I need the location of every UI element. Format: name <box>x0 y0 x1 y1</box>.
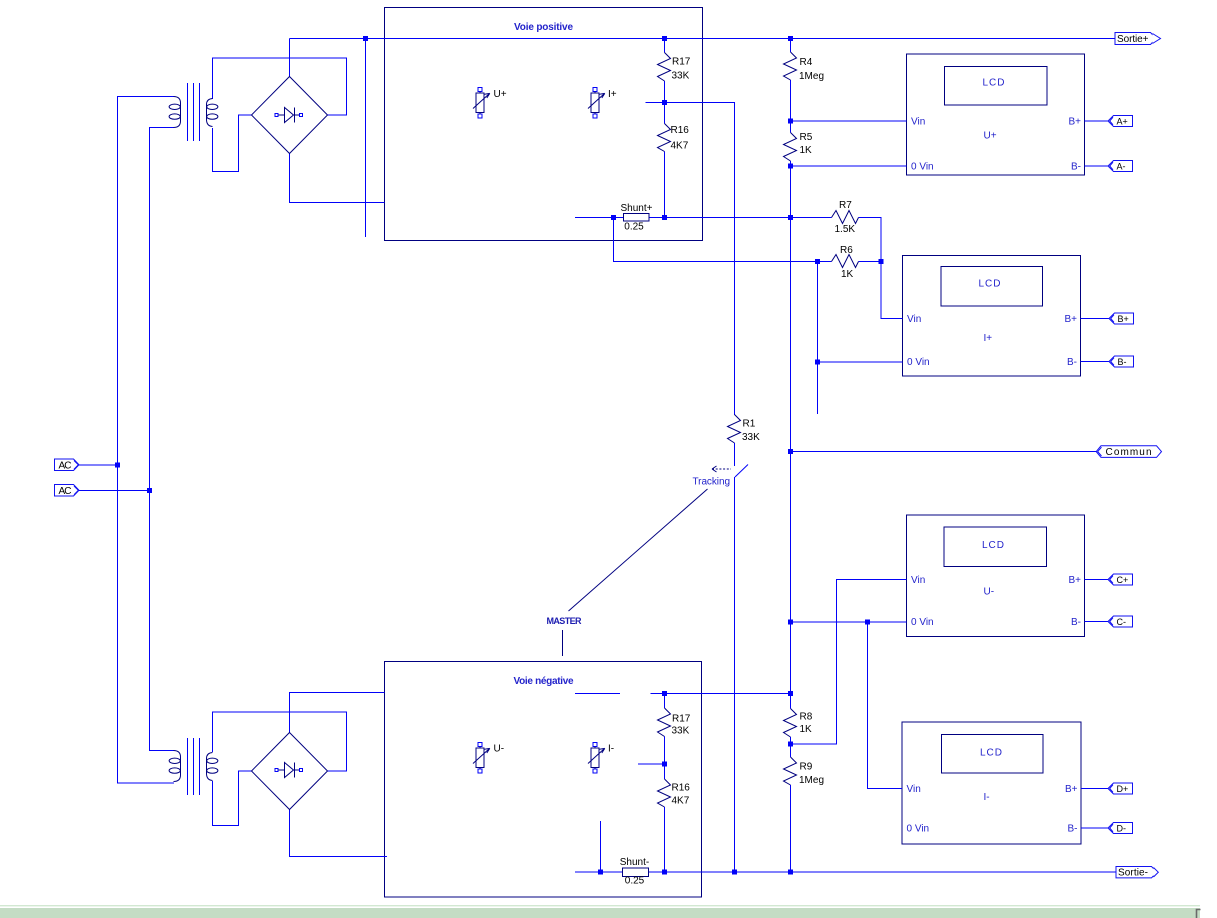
wire bridge2 top vertex to module box <box>290 693 385 733</box>
wire I+ B- to port B- <box>1081 361 1110 363</box>
svg-text:4K7: 4K7 <box>671 141 689 152</box>
potentiometer I- <box>588 743 605 774</box>
junction R6 left / 0Vin I+ drop <box>815 259 820 264</box>
svg-text:Voie positive: Voie positive <box>514 22 573 33</box>
label R5 value 1K <box>800 132 813 156</box>
svg-text:0 Vin: 0 Vin <box>907 824 930 835</box>
junction Sortie- rail / tracking column <box>732 870 737 875</box>
resistor R16 zigzag <box>658 124 671 152</box>
svg-text:LCD: LCD <box>982 540 1005 551</box>
wire U+ B+ to port A+ <box>1085 120 1110 122</box>
svg-text:A-: A- <box>1117 161 1126 171</box>
wire AC port 1 lead <box>79 464 118 466</box>
junction R17b-R16b tap <box>662 762 667 767</box>
junction shunt+ right / R16 <box>662 215 667 220</box>
junction top rail / box edge drop <box>363 36 368 41</box>
port Sortie- <box>1116 867 1158 879</box>
junction top rail / R17 <box>662 36 667 41</box>
resistor R4 zigzag <box>784 52 797 80</box>
svg-text:Commun: Commun <box>1106 447 1152 458</box>
svg-text:R4: R4 <box>800 57 813 68</box>
wire from rail junction down along box edge <box>365 39 367 238</box>
svg-text:A+: A+ <box>1117 116 1128 126</box>
module box Voie positive <box>385 8 703 241</box>
label Shunt+ value 0.25 <box>621 203 653 233</box>
status bar green strip <box>0 905 1201 918</box>
resistor R9 zigzag <box>784 757 797 785</box>
junction R6 right / R7 corner <box>879 259 884 264</box>
svg-text:C+: C+ <box>1117 575 1129 585</box>
svg-text:R8: R8 <box>800 712 813 723</box>
svg-text:33K: 33K <box>742 432 760 443</box>
wire R16 bottom to shunt junction <box>664 152 666 218</box>
svg-text:Tracking: Tracking <box>693 477 731 488</box>
pin labels U4 <box>907 784 1078 835</box>
port AC 1 <box>55 459 80 471</box>
wire Commun net <box>791 451 1097 453</box>
label R6 value 1K <box>840 245 854 280</box>
wire Sortie- rail <box>575 871 1116 873</box>
svg-text:U+: U+ <box>494 89 507 100</box>
potentiometer U+ <box>473 88 490 119</box>
tracking switch lever <box>735 465 748 478</box>
svg-text:I+: I+ <box>984 333 993 344</box>
svg-text:LCD: LCD <box>982 78 1005 89</box>
port D- <box>1108 823 1133 834</box>
wire AC port 2 lead <box>79 490 150 492</box>
svg-text:Vin: Vin <box>907 784 921 795</box>
svg-text:R7: R7 <box>839 200 852 211</box>
MASTER stub line <box>562 630 564 656</box>
svg-text:R16: R16 <box>672 783 691 794</box>
port A- <box>1108 161 1133 172</box>
wire R17/R16 tap to tracking column <box>646 103 735 416</box>
wire shunt+ junction down to R6 rail <box>614 218 832 262</box>
svg-text:0 Vin: 0 Vin <box>907 357 930 368</box>
svg-text:1K: 1K <box>841 269 854 280</box>
resistor R1 zigzag <box>728 415 741 444</box>
svg-text:Vin: Vin <box>911 117 925 128</box>
wire R16b bottom to Sortie- rail <box>664 807 666 872</box>
svg-text:1K: 1K <box>800 724 813 735</box>
svg-text:B-: B- <box>1118 357 1127 367</box>
svg-text:MASTER: MASTER <box>547 616 583 626</box>
resistor R17b zigzag <box>658 708 671 737</box>
bridge rectifier 2 diode symbol <box>275 763 303 778</box>
wire transformer1 primary bottom / left AC bus 2 <box>150 128 175 751</box>
label Shunt- value 0.25 <box>620 857 649 887</box>
wire U- B- to port C- <box>1085 621 1109 623</box>
svg-text:1Meg: 1Meg <box>799 71 824 82</box>
wire stub above shunt- junction <box>600 821 602 872</box>
wire R9 bottom to Sortie- rail <box>790 785 792 872</box>
bridge rectifier 1 diamond <box>252 77 328 154</box>
wire R17b bottom to junction <box>664 737 666 765</box>
junction AC2 bus <box>147 488 152 493</box>
wire 0Vin I+ horizontal <box>818 361 903 363</box>
pin labels U1 <box>911 117 1081 173</box>
svg-text:U+: U+ <box>984 131 997 142</box>
resistor R5 zigzag <box>784 133 797 162</box>
wire R5 bottom / right bus down to bottom rail <box>790 161 792 694</box>
LCD meter I- box U4 <box>902 722 1081 844</box>
wire R17 column top <box>664 39 666 53</box>
svg-text:B-: B- <box>1071 162 1081 173</box>
label R7 value 1.5K <box>835 200 856 235</box>
wire bridge2 left vertex to transformer2 secondary bottom <box>213 771 252 826</box>
wire R17b top lead <box>664 694 666 709</box>
shunt+ resistor body <box>624 214 650 222</box>
junction shunt+ left <box>611 215 616 220</box>
junction top rail / R4 <box>788 36 793 41</box>
svg-text:0 Vin: 0 Vin <box>911 162 934 173</box>
port AC 2 <box>55 485 80 497</box>
LCD meter U- box U3 <box>907 515 1085 637</box>
bridge rectifier 1 diode symbol <box>275 108 303 123</box>
label R17b value 33K <box>672 714 691 737</box>
module box Voie negative <box>385 662 702 898</box>
port Sortie+ <box>1115 33 1161 46</box>
wire I- Vin feed <box>868 622 903 789</box>
svg-text:0.25: 0.25 <box>625 876 645 887</box>
port A+ <box>1108 116 1133 127</box>
svg-text:4K7: 4K7 <box>672 796 690 807</box>
svg-text:AC: AC <box>59 460 72 471</box>
svg-text:C-: C- <box>1117 617 1127 627</box>
annotation line tracking to MASTER <box>569 489 708 611</box>
wire transformer1 primary top / left AC bus 1 <box>118 97 175 784</box>
transformer2 core bars <box>188 738 200 795</box>
port D+ <box>1108 783 1133 794</box>
svg-text:R17: R17 <box>672 714 691 725</box>
resistor R17 zigzag <box>658 53 671 82</box>
junction 0Vin U+ <box>788 164 793 169</box>
wire shunt+ rail <box>575 217 832 219</box>
junction shunt- right / R16b <box>662 870 667 875</box>
junction AC1 bus <box>115 463 120 468</box>
pin labels U3 <box>911 575 1081 628</box>
wire 0Vin U+ <box>791 165 907 167</box>
svg-text:R5: R5 <box>800 132 813 143</box>
port C+ <box>1108 574 1133 585</box>
svg-text:I+: I+ <box>608 89 617 100</box>
transformer2 secondary coil <box>207 753 218 781</box>
wire stub left of R17b/R16b junction <box>638 763 665 765</box>
svg-text:D-: D- <box>1117 823 1127 833</box>
svg-text:1Meg: 1Meg <box>799 775 824 786</box>
shunt- resistor body <box>623 868 649 877</box>
wire R16b top lead <box>664 764 666 779</box>
wire Vin U+ <box>791 120 907 122</box>
wire top rail Sortie+ net <box>290 38 1116 40</box>
svg-text:B-: B- <box>1067 357 1077 368</box>
svg-text:B+: B+ <box>1118 314 1129 324</box>
wire transformer2 secondary top to bridge2 right vertex <box>213 712 347 771</box>
svg-text:B+: B+ <box>1068 117 1081 128</box>
resistor R16b zigzag <box>658 779 671 807</box>
junction Commun tap <box>788 449 793 454</box>
transformer1 primary coil <box>169 97 180 128</box>
svg-text:R17: R17 <box>672 57 691 68</box>
transformer1 core bars <box>188 83 200 141</box>
svg-text:B-: B- <box>1068 824 1078 835</box>
wire 0Vin I+ vertical <box>817 262 819 415</box>
svg-text:33K: 33K <box>672 71 690 82</box>
wire U- B+ to port C+ <box>1085 579 1109 581</box>
wire U- Vin feed <box>791 580 907 745</box>
resistor R7 zigzag <box>832 211 859 224</box>
wire switch lower contact down to Sortie- rail <box>734 477 736 872</box>
svg-text:R6: R6 <box>840 245 853 256</box>
port Commun <box>1096 446 1161 458</box>
wire R17 bottom to R16 top <box>664 81 666 124</box>
junction Sortie- rail / R9 <box>788 870 793 875</box>
svg-text:R16: R16 <box>671 125 690 136</box>
transformer2 primary coil <box>169 751 180 782</box>
junction Vin U+ <box>788 119 793 124</box>
junction bottom rail / R17b <box>662 691 667 696</box>
svg-text:B+: B+ <box>1068 575 1081 586</box>
transformer1 secondary coil <box>207 99 218 127</box>
svg-text:R9: R9 <box>800 762 813 773</box>
svg-text:D+: D+ <box>1117 784 1129 794</box>
potentiometer I+ <box>588 88 605 119</box>
svg-text:LCD: LCD <box>980 748 1003 759</box>
port B+ <box>1109 313 1134 324</box>
wire I+ B+ to port B+ <box>1081 318 1110 320</box>
wire floating segment <box>575 693 620 695</box>
wire R4 top lead <box>790 39 792 53</box>
label R17 value 33K <box>672 57 691 82</box>
svg-text:I-: I- <box>608 744 614 755</box>
wire R6 right lead to I+ Vin <box>859 262 903 319</box>
junction 0Vin U- / I- feed <box>865 620 870 625</box>
label R16 value 4K7 <box>671 125 690 152</box>
label R8 value 1K <box>800 712 813 736</box>
pin labels U2 <box>907 314 1077 368</box>
svg-text:B-: B- <box>1071 617 1081 628</box>
svg-text:Voie négative: Voie négative <box>514 676 574 687</box>
wire R1 bottom to switch contact <box>734 443 736 466</box>
junction shunt+ rail / R5 column <box>788 215 793 220</box>
junction R8 bottom / U- Vin feed <box>788 742 793 747</box>
junction 0Vin I+ <box>815 360 820 365</box>
svg-text:0.25: 0.25 <box>624 222 644 233</box>
svg-text:Shunt-: Shunt- <box>620 857 649 868</box>
label R9 value 1Meg <box>799 762 824 787</box>
svg-text:U-: U- <box>984 587 995 598</box>
wire R8 top lead <box>790 694 792 709</box>
port B- <box>1109 356 1134 367</box>
resistor R8 zigzag <box>784 709 797 738</box>
wire U+ B- to port A- <box>1085 165 1110 167</box>
svg-text:B+: B+ <box>1064 314 1077 325</box>
label R16b value 4K7 <box>672 783 691 807</box>
LCD meter U+ box U1 <box>907 54 1085 175</box>
port C- <box>1108 616 1133 627</box>
svg-text:1K: 1K <box>800 145 813 156</box>
wire bridge1 top vertex to rail <box>289 39 291 77</box>
svg-text:1.5K: 1.5K <box>835 224 856 235</box>
wire bridge1 bottom vertex to module box <box>290 154 385 203</box>
junction 0Vin U- left <box>788 620 793 625</box>
svg-text:Sortie-: Sortie- <box>1118 868 1148 879</box>
svg-text:AC: AC <box>59 486 72 497</box>
wire I- B+ to port D+ <box>1081 788 1108 790</box>
junction shunt- left <box>598 870 603 875</box>
wire bottom box rail <box>651 693 791 695</box>
wire R7 right lead corner down <box>859 218 882 262</box>
svg-text:I-: I- <box>984 792 990 803</box>
resistor R6 zigzag <box>832 255 859 268</box>
wire bridge2 bottom vertex to module box <box>290 810 388 857</box>
svg-text:Shunt+: Shunt+ <box>621 203 653 214</box>
label R4 value 1Meg <box>799 57 824 82</box>
svg-text:0 Vin: 0 Vin <box>911 617 934 628</box>
wire transformer1 secondary top to bridge1 right vertex <box>213 58 347 115</box>
svg-text:Vin: Vin <box>911 575 925 586</box>
LCD meter I+ box U2 <box>903 256 1081 377</box>
junction bottom rail / R8 <box>788 691 793 696</box>
svg-text:LCD: LCD <box>978 279 1001 290</box>
svg-text:R1: R1 <box>743 419 756 430</box>
svg-text:33K: 33K <box>672 726 690 737</box>
wire R8 bottom to R9 top <box>790 737 792 757</box>
svg-text:Vin: Vin <box>907 314 921 325</box>
bridge rectifier 2 diamond <box>252 733 328 810</box>
potentiometer U- <box>473 743 490 774</box>
svg-text:U-: U- <box>494 744 505 755</box>
svg-text:B+: B+ <box>1065 784 1078 795</box>
svg-text:Sortie+: Sortie+ <box>1117 34 1149 45</box>
tracking switch dashed arrow <box>712 466 731 472</box>
label R1 value 33K <box>742 419 760 444</box>
wire I- B- to port D- <box>1081 827 1108 829</box>
wire bridge1 left vertex to transformer1 secondary bottom <box>213 115 252 172</box>
wire 0Vin U- rail <box>791 621 907 623</box>
junction R17-R16 tap <box>662 100 667 105</box>
wire R4 bottom to R5 top <box>790 80 792 133</box>
